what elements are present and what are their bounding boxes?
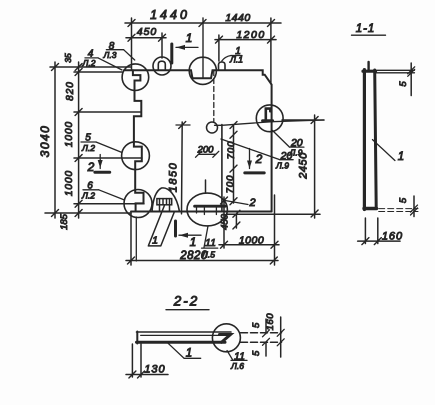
1850 top tick — [179, 122, 186, 129]
1-1 bottom 5 dim — [379, 209, 418, 212]
svg-text:5: 5 — [398, 81, 409, 87]
svg-text:1: 1 — [398, 151, 404, 163]
svg-text:5: 5 — [251, 350, 262, 356]
label 1/L1 flag — [222, 46, 243, 65]
inner recess top line — [215, 120, 325, 125]
svg-text:1: 1 — [186, 31, 193, 45]
dim 1850 line — [181, 122, 184, 214]
label 11/L6 — [227, 351, 247, 372]
left extension lines — [45, 67, 144, 213]
label 6/L2 — [81, 181, 124, 201]
section symbol 2 right — [245, 171, 264, 174]
svg-text:1440: 1440 — [225, 12, 250, 24]
svg-text:Л.5: Л.5 — [201, 250, 215, 260]
svg-text:1440: 1440 — [150, 8, 190, 22]
200 dim line — [199, 153, 216, 155]
lifting loop bell — [152, 188, 180, 212]
inner chain ticks — [230, 122, 237, 205]
2-2 bar inner — [141, 334, 220, 336]
right plate line — [227, 213, 320, 215]
panel left edge with keys — [133, 70, 144, 211]
label 20/L9 second — [221, 139, 293, 171]
lifting loop balloon — [153, 57, 171, 75]
label 8/L3 — [103, 41, 135, 60]
svg-text:1-1: 1-1 — [356, 23, 376, 35]
svg-text:5: 5 — [398, 197, 409, 203]
right top extension — [282, 119, 324, 121]
section symbol 1 top — [170, 44, 173, 63]
loop arch 2 — [219, 62, 226, 70]
dim 450 line — [126, 37, 166, 39]
svg-text:820: 820 — [65, 81, 76, 101]
svg-text:3040: 3040 — [38, 125, 52, 158]
2-2 detail circle — [212, 324, 240, 352]
1-1 dim 160 — [365, 218, 377, 244]
1-1 top cap — [363, 70, 376, 73]
svg-text:1: 1 — [186, 348, 192, 360]
label 20/L9 first — [273, 131, 304, 158]
detail circle corner A (4/L2) — [122, 64, 149, 91]
svg-text:1000: 1000 — [64, 170, 75, 196]
svg-text:450: 450 — [220, 213, 231, 230]
svg-text:130: 130 — [144, 364, 165, 376]
2-2 bar bottom — [137, 341, 226, 344]
450 aux line — [235, 214, 237, 228]
plate bar in ellipse — [195, 205, 226, 208]
short line above ellipse — [205, 180, 207, 193]
svg-text:1200: 1200 — [236, 29, 265, 41]
svg-text:Л.2: Л.2 — [81, 143, 95, 153]
1-1 stub — [367, 62, 369, 70]
svg-text:35: 35 — [63, 53, 73, 63]
svg-text:2-2: 2-2 — [173, 294, 200, 309]
svg-text:185: 185 — [59, 213, 70, 230]
svg-text:160: 160 — [382, 231, 403, 243]
top extension lines — [132, 18, 271, 84]
svg-text:2: 2 — [87, 160, 95, 174]
plate anchors — [197, 206, 217, 214]
inner chain 700/700 — [233, 125, 235, 203]
450 ticks — [221, 197, 240, 229]
svg-text:1000: 1000 — [239, 235, 264, 247]
svg-text:1: 1 — [190, 235, 197, 249]
2-2 dim 130 — [132, 344, 141, 377]
panel bottom edge — [131, 211, 272, 213]
svg-text:11: 11 — [205, 237, 216, 249]
2-2 leader 1 — [168, 343, 201, 359]
groove detail circle — [189, 57, 216, 84]
1-1 leader 1 — [373, 140, 395, 161]
svg-text:1000: 1000 — [64, 121, 75, 147]
loop arch inside balloon — [158, 61, 165, 70]
svg-text:1850: 1850 — [168, 162, 180, 192]
svg-text:Л.6: Л.6 — [230, 361, 244, 371]
top dim ticks — [128, 20, 275, 44]
svg-text:5: 5 — [251, 322, 262, 328]
corner bracket in 20/L9 — [266, 109, 271, 121]
bell leader triangle — [148, 206, 174, 246]
2-2 right dim lines — [280, 317, 282, 357]
panel plan outline — [124, 70, 272, 211]
svg-text:Л.2: Л.2 — [82, 58, 96, 68]
2-2 bar top — [137, 331, 232, 333]
section symbol 1 bottom — [174, 221, 177, 236]
detail circle 20/L9 — [256, 105, 283, 132]
small circle node — [207, 122, 218, 133]
bottom dim 1000 — [219, 244, 279, 246]
label 2 leader — [225, 197, 256, 209]
svg-text:2: 2 — [255, 152, 263, 166]
inner recess corner — [221, 125, 223, 212]
left chain dim line — [78, 62, 80, 218]
bottom plate ellipse 11/L5 — [187, 193, 227, 226]
bottom dim 2820 — [126, 260, 278, 262]
svg-text:2: 2 — [248, 197, 255, 209]
dashed hidden line top — [213, 71, 215, 123]
section symbol 2 left — [95, 171, 110, 174]
left outer dim 3040 — [54, 62, 56, 218]
detail circle 5/L2 — [122, 142, 150, 170]
svg-text:700: 700 — [225, 175, 236, 194]
groove center line — [202, 18, 204, 78]
top dim line 1440+1440 — [125, 22, 281, 24]
2-2 dashed extensions — [241, 333, 282, 343]
2-2 bar left cap — [136, 332, 138, 344]
extension below circle 6 — [135, 217, 137, 261]
svg-text:160: 160 — [265, 313, 276, 331]
left dim ticks — [52, 64, 83, 217]
bottom ticks — [128, 241, 279, 264]
label 11/L5 — [201, 226, 218, 260]
dim 1200 line — [215, 39, 276, 41]
2-2 wedge — [220, 335, 231, 343]
detail circle 6/L2 — [124, 190, 152, 218]
1-1 top 5 dim — [376, 70, 415, 73]
1-1 left wall — [363, 70, 366, 210]
1-1 right wall — [375, 70, 377, 207]
svg-text:Л.9: Л.9 — [275, 161, 289, 171]
label 4/L2 — [82, 49, 122, 71]
bell hatched plate — [157, 199, 172, 211]
1-1 bottom cap — [364, 207, 377, 210]
bottom extensions — [131, 195, 275, 265]
svg-text:Л.3: Л.3 — [103, 50, 117, 60]
label 5/L2 — [81, 133, 122, 154]
right dim 2450 — [314, 115, 316, 218]
svg-text:Л.2: Л.2 — [81, 191, 95, 201]
svg-text:1: 1 — [152, 235, 158, 247]
right ticks 2450 — [311, 117, 318, 218]
svg-text:450: 450 — [137, 26, 158, 38]
